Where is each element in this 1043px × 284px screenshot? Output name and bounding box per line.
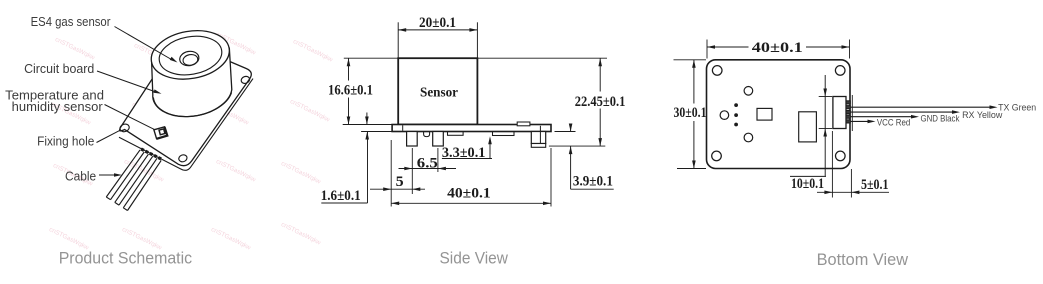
dim 16.6 line	[348, 58, 350, 80]
svg-text:Sensor: Sensor	[420, 86, 458, 101]
svg-text:Bottom View: Bottom View	[817, 250, 909, 269]
svg-text:TX Green: TX Green	[998, 103, 1036, 114]
leader Fixing hole	[97, 130, 121, 142]
dim 3.3 leader	[489, 138, 491, 159]
svg-text:RX Yellow: RX Yellow	[962, 110, 1002, 121]
side pad 2	[493, 132, 515, 136]
gas sensor hole inner	[182, 53, 198, 66]
svg-text:Cable: Cable	[65, 170, 96, 184]
dim 30 ext bottomview	[674, 59, 707, 61]
side small u pin	[424, 132, 430, 137]
bottom dot 3	[735, 123, 738, 126]
dim 40 ext lines side	[390, 140, 392, 207]
dim 20 ext lines	[397, 22, 399, 57]
svg-text:5: 5	[396, 174, 404, 190]
svg-text:GND Black: GND Black	[921, 114, 960, 125]
gas sensor top rim	[156, 32, 225, 80]
bottom dot 2	[735, 114, 738, 117]
svg-text:ES4 gas sensor: ES4 gas sensor	[31, 15, 111, 29]
side top bump	[517, 122, 530, 126]
side ext line bottom right	[549, 145, 605, 147]
dim 40 line side	[391, 202, 551, 204]
dim 10 ticks	[819, 96, 832, 98]
bottom hole bottom-left	[712, 151, 722, 161]
dim 40 line bottomview	[707, 46, 749, 48]
svg-text:30±0.1: 30±0.1	[674, 105, 707, 121]
leader Circuit board	[97, 71, 155, 92]
dim 40 ext bottomview	[706, 40, 708, 59]
dim 20 line	[398, 29, 477, 31]
dim 3.3 underline	[442, 158, 492, 160]
dim 5 ext bottomview	[831, 131, 833, 198]
svg-text:3.9±0.1: 3.9±0.1	[573, 174, 613, 190]
bottom circle top	[744, 87, 753, 96]
bottom connector	[833, 97, 846, 129]
gas sensor cylinder bottom lip	[153, 93, 231, 117]
dim 5 line bottomview	[817, 191, 889, 193]
temperature-humidity sensor component	[154, 127, 167, 139]
svg-text:Product Schematic: Product Schematic	[59, 249, 193, 268]
gas sensor cylinder body	[152, 48, 232, 117]
svg-text:6.5: 6.5	[417, 155, 438, 171]
side pcb left step	[402, 125, 404, 131]
dim 30 line	[693, 60, 695, 104]
svg-text:5±0.1: 5±0.1	[861, 177, 889, 193]
3d fixing hole bottom	[178, 154, 188, 163]
bottom hole top-right	[835, 66, 845, 76]
svg-text:humidity sensor: humidity sensor	[12, 100, 103, 114]
dim 3.9 underline	[571, 188, 614, 190]
svg-text:40±0.1: 40±0.1	[752, 40, 803, 56]
leader ES4 gas sensor	[115, 27, 172, 60]
3d fixing hole right	[240, 75, 250, 84]
bottom circle bottom	[744, 133, 753, 142]
svg-text:Circuit board: Circuit board	[24, 62, 94, 76]
dim 5 line	[370, 188, 425, 190]
bottom board edge ext near connector	[851, 95, 853, 131]
svg-text:22.45±0.1: 22.45±0.1	[575, 94, 626, 110]
cable wire bundle	[106, 150, 140, 197]
3d circuit board outline	[120, 42, 252, 166]
dim 22.45 line	[599, 58, 601, 91]
3d board thickness edge	[119, 79, 253, 171]
gas sensor hole outer	[179, 50, 200, 67]
wire TX	[851, 106, 991, 108]
bottom hole top-left	[712, 66, 722, 76]
dim 6.5 line	[399, 168, 457, 170]
side right block	[531, 132, 545, 144]
side sensor box	[398, 58, 477, 124]
side pin 2	[433, 132, 444, 147]
dim 10 line	[824, 75, 826, 176]
side pcb top ext left	[343, 124, 392, 126]
gas sensor cylinder top face	[147, 25, 233, 85]
side right block inner line	[539, 126, 541, 144]
wire RX	[851, 111, 953, 113]
svg-text:VCC Red: VCC Red	[877, 118, 910, 129]
dim 1.6 underline	[321, 202, 367, 204]
wire GND	[851, 116, 912, 118]
side pcb bottom ext left	[361, 131, 392, 133]
cable solder pins	[140, 148, 144, 152]
wire VCC	[851, 120, 869, 122]
leader Cable	[99, 174, 116, 176]
bottom connector pins	[846, 101, 850, 104]
svg-text:Side View: Side View	[440, 249, 509, 268]
bottom board outline	[707, 60, 851, 169]
3d fixing hole left	[119, 123, 130, 133]
dim 3.9 lines	[570, 125, 572, 132]
bottom dot 1	[735, 104, 738, 107]
side pin 1	[407, 132, 418, 147]
svg-text:40±0.1: 40±0.1	[447, 186, 491, 202]
svg-text:16.6±0.1: 16.6±0.1	[328, 83, 373, 99]
side sensor top extension line	[344, 57, 607, 59]
svg-text:10±0.1: 10±0.1	[791, 176, 824, 192]
bottom ic rectangle	[799, 112, 817, 142]
leader humidity sensor	[105, 105, 155, 130]
bottom hole bottom-right	[836, 151, 846, 161]
dim 6.5 ext lines	[411, 148, 413, 194]
dim 1.6 arrows	[366, 113, 368, 125]
side pad 1	[448, 132, 464, 136]
svg-text:20±0.1: 20±0.1	[419, 15, 456, 31]
dim 10 shelf	[790, 175, 826, 177]
side ext line board bottom right	[555, 131, 576, 133]
svg-text:Fixing hole: Fixing hole	[37, 135, 94, 149]
side pcb board	[392, 125, 551, 132]
bottom circle left	[720, 111, 729, 120]
svg-text:1.6±0.1: 1.6±0.1	[321, 188, 361, 204]
bottom small square	[757, 108, 772, 120]
side right block foot	[531, 144, 545, 148]
